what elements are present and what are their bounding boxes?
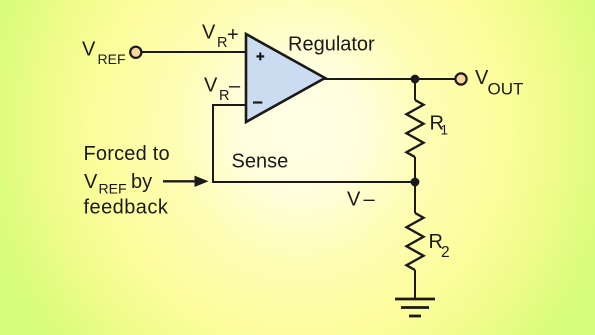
wire: R2 top lead xyxy=(414,182,416,213)
svg-text:OUT: OUT xyxy=(488,80,524,99)
op-amp + sign xyxy=(256,53,264,61)
svg-text:V: V xyxy=(347,189,361,211)
wire: op-amp - input xyxy=(213,104,247,106)
svg-text:V: V xyxy=(82,39,96,61)
label R2 xyxy=(429,231,450,261)
svg-text:–: – xyxy=(229,75,241,97)
svg-text:Forced to: Forced to xyxy=(84,143,170,165)
svg-text:Regulator: Regulator xyxy=(288,34,375,56)
svg-text:2: 2 xyxy=(441,244,450,261)
node: feedback junction xyxy=(411,178,420,187)
wire: Sense horizontal xyxy=(212,181,415,183)
wire: R2 bottom lead xyxy=(414,270,416,300)
wire: op-amp output xyxy=(324,78,455,80)
svg-text:feedback: feedback xyxy=(84,197,169,219)
svg-text:1: 1 xyxy=(441,123,449,138)
resistor R1 xyxy=(407,100,424,157)
svg-text:R: R xyxy=(217,35,227,51)
terminal VREF xyxy=(130,47,141,58)
svg-text:R: R xyxy=(219,88,229,104)
ground xyxy=(395,299,435,316)
label VREF xyxy=(82,39,126,68)
svg-text:V: V xyxy=(84,171,98,193)
op-amp U1 regulator triangle xyxy=(246,34,325,122)
annotation: Forced to VREF by feedback xyxy=(84,143,170,219)
svg-text:REF: REF xyxy=(98,51,126,67)
node: output junction xyxy=(411,75,420,84)
svg-text:+: + xyxy=(227,24,239,46)
wire: R1 bottom lead xyxy=(414,157,416,183)
svg-text:V: V xyxy=(202,22,216,44)
resistor R2 xyxy=(407,213,424,270)
wire: VREF to op-amp + input xyxy=(141,51,247,53)
label R1 xyxy=(430,113,449,138)
svg-text:V: V xyxy=(204,75,218,97)
arrow to feedback corner xyxy=(163,176,209,187)
label VR- xyxy=(204,75,241,105)
svg-text:REF: REF xyxy=(99,181,127,197)
wire: R1 top lead xyxy=(414,79,416,100)
op-amp - sign xyxy=(253,101,262,103)
svg-text:by: by xyxy=(131,171,152,193)
label VOUT xyxy=(475,67,523,99)
svg-text:–: – xyxy=(364,189,376,211)
svg-text:Sense: Sense xyxy=(232,151,289,173)
terminal VOUT xyxy=(455,73,466,84)
wire: vertical feedback left xyxy=(212,104,214,183)
label VR+ xyxy=(202,22,239,52)
